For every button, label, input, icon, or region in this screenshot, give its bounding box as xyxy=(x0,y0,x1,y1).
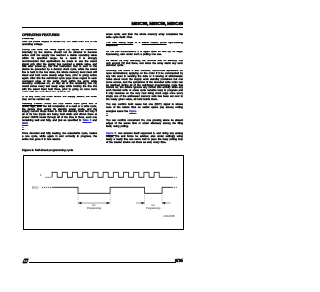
svg-text:DI/O: DI/O xyxy=(32,186,39,190)
svg-text:Programming: Programming xyxy=(87,207,102,210)
svg-text:AI01438B: AI01438B xyxy=(164,215,175,218)
svg-text:C: C xyxy=(40,173,42,177)
svg-text:Programming: Programming xyxy=(146,207,161,210)
svg-text:tWC: tWC xyxy=(92,204,96,207)
svg-text:tWC: tWC xyxy=(151,204,155,207)
